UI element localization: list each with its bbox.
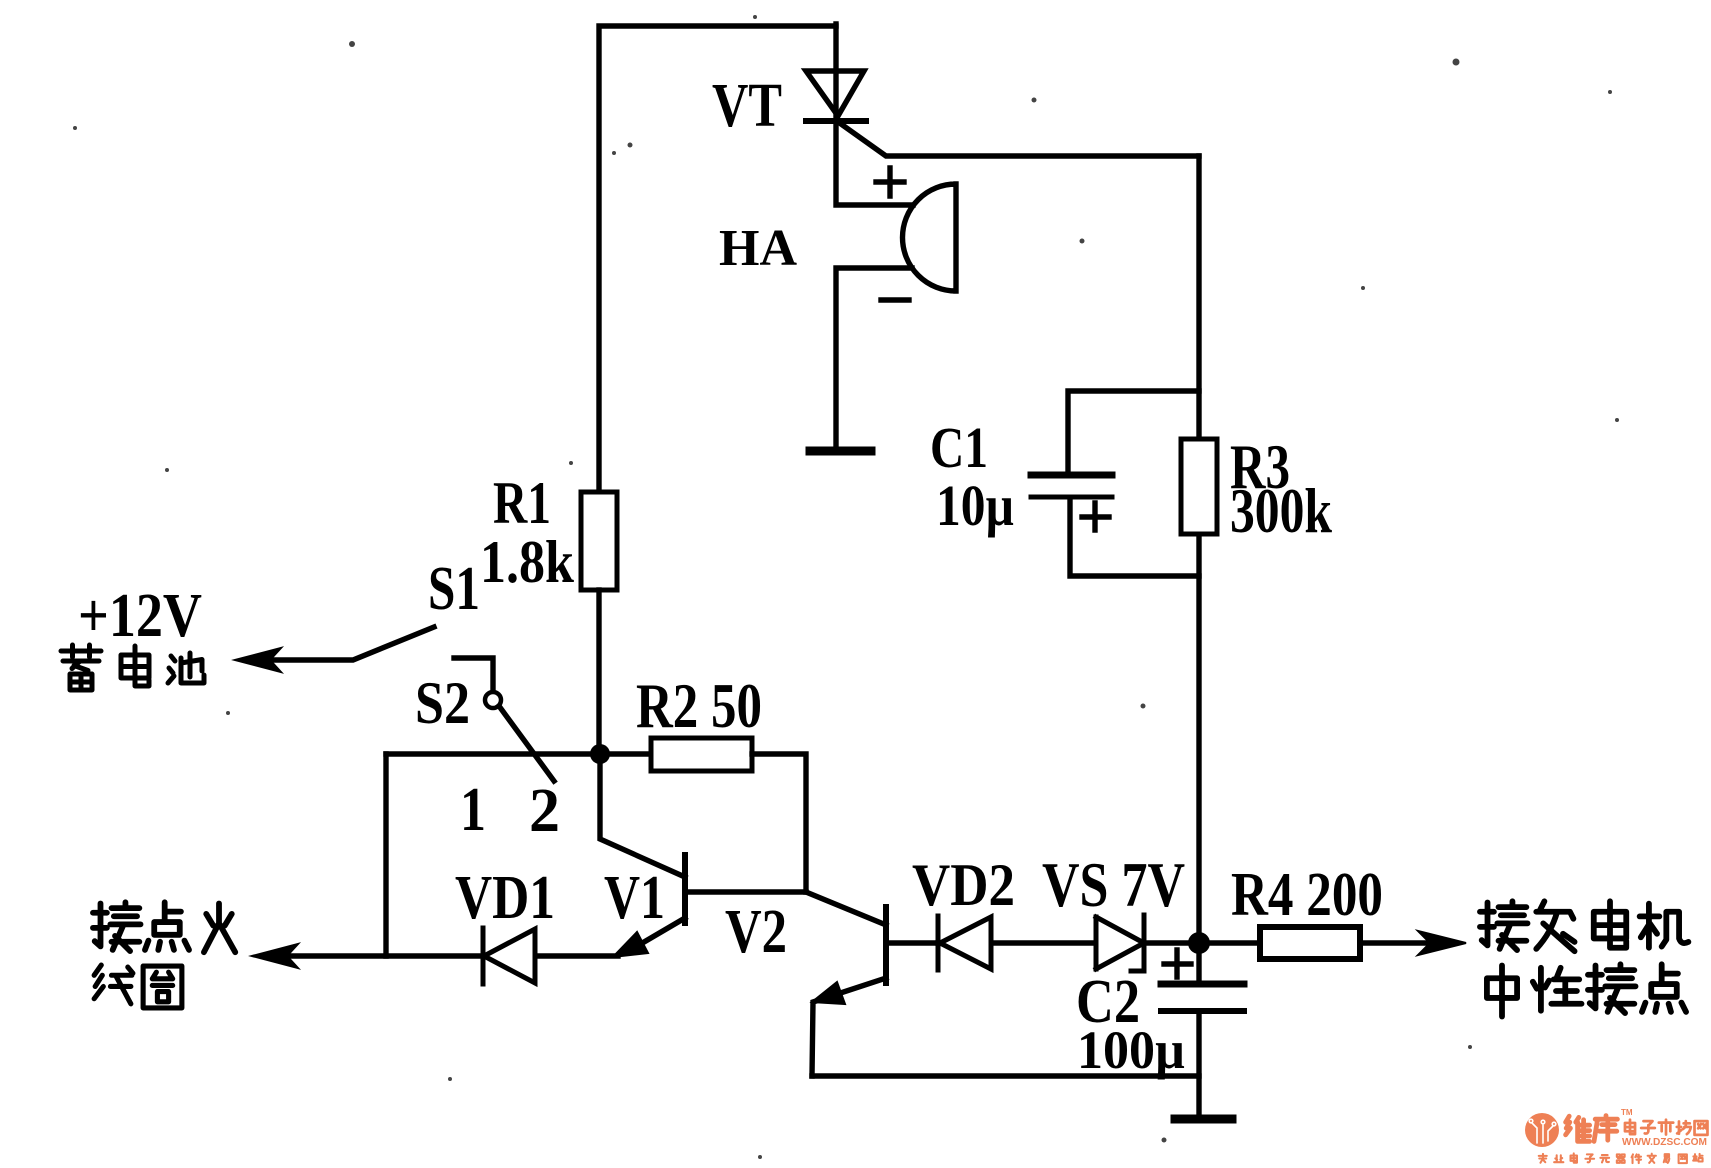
transistor V2 xyxy=(806,892,886,925)
wire main horizontal xyxy=(386,751,651,756)
wire top loop xyxy=(599,26,836,492)
junction node A xyxy=(590,744,610,764)
svg-text:10µ: 10µ xyxy=(936,473,1014,538)
logo circle xyxy=(1525,1113,1559,1147)
svg-text:HA: HA xyxy=(719,220,797,277)
wire right bus down xyxy=(1196,156,1201,1119)
svg-text:R4 200: R4 200 xyxy=(1231,861,1383,929)
svg-text:V2: V2 xyxy=(725,898,787,966)
wire C1 top tee xyxy=(1068,391,1199,471)
svg-text:R2 50: R2 50 xyxy=(636,670,762,741)
svg-text:S2: S2 xyxy=(415,670,470,736)
svg-text:300k: 300k xyxy=(1230,475,1332,546)
wire R2 right corner down xyxy=(752,754,806,892)
wire VT anode vertical xyxy=(833,24,838,121)
wire VT cathode to horn xyxy=(836,121,913,205)
polarity + (C1) xyxy=(1082,503,1109,530)
resistor R2 xyxy=(651,738,752,771)
svg-text:R1: R1 xyxy=(493,470,551,536)
horn HA xyxy=(902,184,956,291)
svg-text:S1: S1 xyxy=(428,555,480,623)
label battery 蓄电池 xyxy=(61,645,204,690)
capacitor C2 xyxy=(1161,981,1244,988)
svg-text:1.8k: 1.8k xyxy=(480,529,575,595)
polarity - (horn) xyxy=(881,297,909,302)
zener VS xyxy=(1096,917,1144,969)
svg-text:VD2: VD2 xyxy=(912,852,1015,918)
wire R4 to output arrow xyxy=(1360,940,1437,945)
wire output to ignition coil xyxy=(283,953,618,958)
capacitor C1 xyxy=(1031,472,1112,479)
transistor V1 xyxy=(600,754,685,877)
svg-text:VT: VT xyxy=(712,72,782,140)
thyristor VT xyxy=(806,71,864,116)
diode VD1 xyxy=(484,929,535,983)
diode VD2 xyxy=(940,917,991,969)
svg-text:2: 2 xyxy=(529,777,560,845)
svg-text:1: 1 xyxy=(460,776,486,844)
wire V2 collector bus xyxy=(938,940,1260,945)
ground (horn) xyxy=(810,447,871,456)
wire V2 emitter run xyxy=(812,1073,1199,1078)
logo 维库 xyxy=(1566,1116,1618,1142)
junction node B xyxy=(1188,932,1210,954)
wire horn bottom to ground xyxy=(836,268,912,447)
switch S1 blade with arrow xyxy=(266,627,434,660)
ground (bottom right) xyxy=(1175,1115,1232,1124)
resistor R3 xyxy=(1181,439,1217,534)
polarity + (C2) xyxy=(1164,950,1191,977)
svg-text:VS 7V: VS 7V xyxy=(1042,849,1185,920)
resistor R4 xyxy=(1260,927,1360,959)
logo slogan 专业电子元器件交易网站 xyxy=(1539,1153,1703,1163)
wire R1 to junction xyxy=(596,590,601,754)
resistor R1 xyxy=(581,492,617,590)
svg-text:100µ: 100µ xyxy=(1077,1020,1185,1080)
svg-text:C1: C1 xyxy=(930,415,988,480)
svg-text:WWW.DZSC.COM: WWW.DZSC.COM xyxy=(1622,1136,1707,1148)
svg-text:TM: TM xyxy=(1621,1108,1633,1117)
svg-text:VD1: VD1 xyxy=(455,864,555,932)
label ignition contact 接点火 / 线圈 xyxy=(93,902,235,1008)
svg-text:V1: V1 xyxy=(604,864,665,932)
switch S2 xyxy=(454,658,493,692)
label generator neutral 接发电机 / 中性接点 xyxy=(1480,901,1688,1016)
wire C1 bottom tee xyxy=(1070,500,1199,576)
wire left branch down xyxy=(383,754,388,956)
wire VT gate xyxy=(841,124,1199,156)
polarity + (horn) xyxy=(876,168,904,196)
logo 电子市场网 xyxy=(1625,1120,1708,1135)
svg-text:+12V: +12V xyxy=(78,582,202,650)
